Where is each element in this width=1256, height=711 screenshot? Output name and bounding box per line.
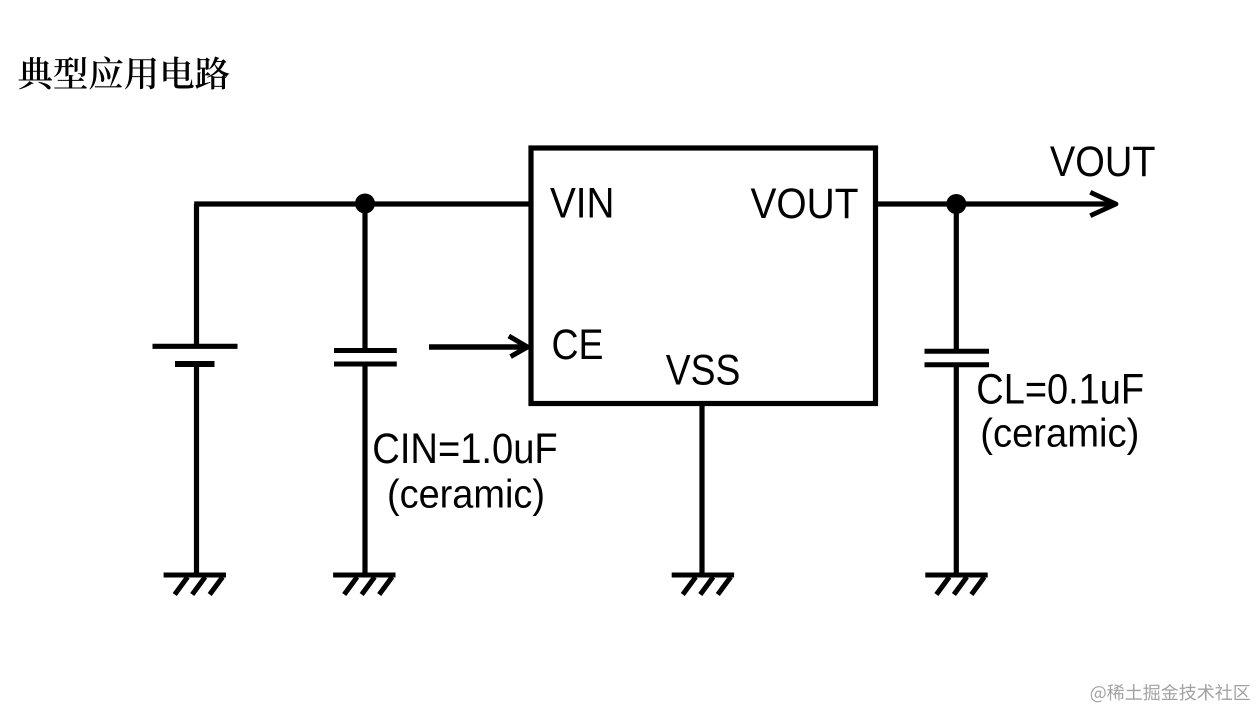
ground GND2 (CIN)	[333, 575, 395, 595]
capacitor CL bottom lead wire	[954, 365, 959, 575]
title 典型应用电路	[19, 56, 230, 89]
CE enable arrow wire	[429, 344, 527, 349]
title char 电	[163, 57, 193, 89]
title char 典	[19, 57, 53, 89]
svg-text:CE: CE	[552, 322, 604, 369]
ground GND3 (VSS)	[672, 575, 734, 595]
wire: input net from battery to VIN	[194, 201, 531, 206]
capacitor CL top lead wire	[954, 204, 959, 351]
svg-text:CL=0.1uF: CL=0.1uF	[976, 367, 1144, 414]
battery B1 positive plate	[153, 344, 238, 349]
capacitor CL top plate	[925, 349, 990, 354]
capacitor CIN bottom plate	[334, 362, 397, 367]
capacitor CIN bottom lead wire	[362, 364, 367, 575]
wire: output net VOUT	[876, 201, 1117, 206]
VOUT arrowhead	[1090, 192, 1116, 215]
ground GND4 (CL)	[925, 575, 987, 595]
node junction dot at CIN	[355, 194, 375, 214]
VSS lead wire	[699, 403, 704, 575]
battery B1 bottom lead wire	[194, 365, 199, 576]
IC box U1	[531, 148, 876, 404]
title char 路	[195, 57, 229, 90]
svg-text:CIN=1.0uF: CIN=1.0uF	[372, 426, 557, 473]
title char 用	[125, 57, 156, 89]
battery B1 top lead wire	[194, 204, 199, 346]
svg-text:VIN: VIN	[550, 181, 615, 228]
svg-text:VOUT: VOUT	[1050, 139, 1156, 186]
watermark @稀土掘金技术社区	[1091, 684, 1250, 702]
capacitor CL bottom plate	[925, 362, 990, 367]
ground GND1 (battery)	[164, 575, 226, 595]
svg-text:(ceramic): (ceramic)	[980, 412, 1139, 456]
CE arrowhead	[509, 336, 528, 357]
node junction dot at CL	[946, 194, 966, 214]
capacitor CIN top plate	[334, 348, 397, 353]
title char 应	[90, 56, 123, 89]
svg-text:VOUT: VOUT	[751, 181, 859, 228]
capacitor CIN top lead wire	[362, 204, 367, 351]
svg-text:VSS: VSS	[666, 347, 741, 394]
battery B1 negative plate	[175, 361, 215, 367]
svg-text:(ceramic): (ceramic)	[387, 473, 545, 517]
title char 型	[54, 57, 87, 89]
